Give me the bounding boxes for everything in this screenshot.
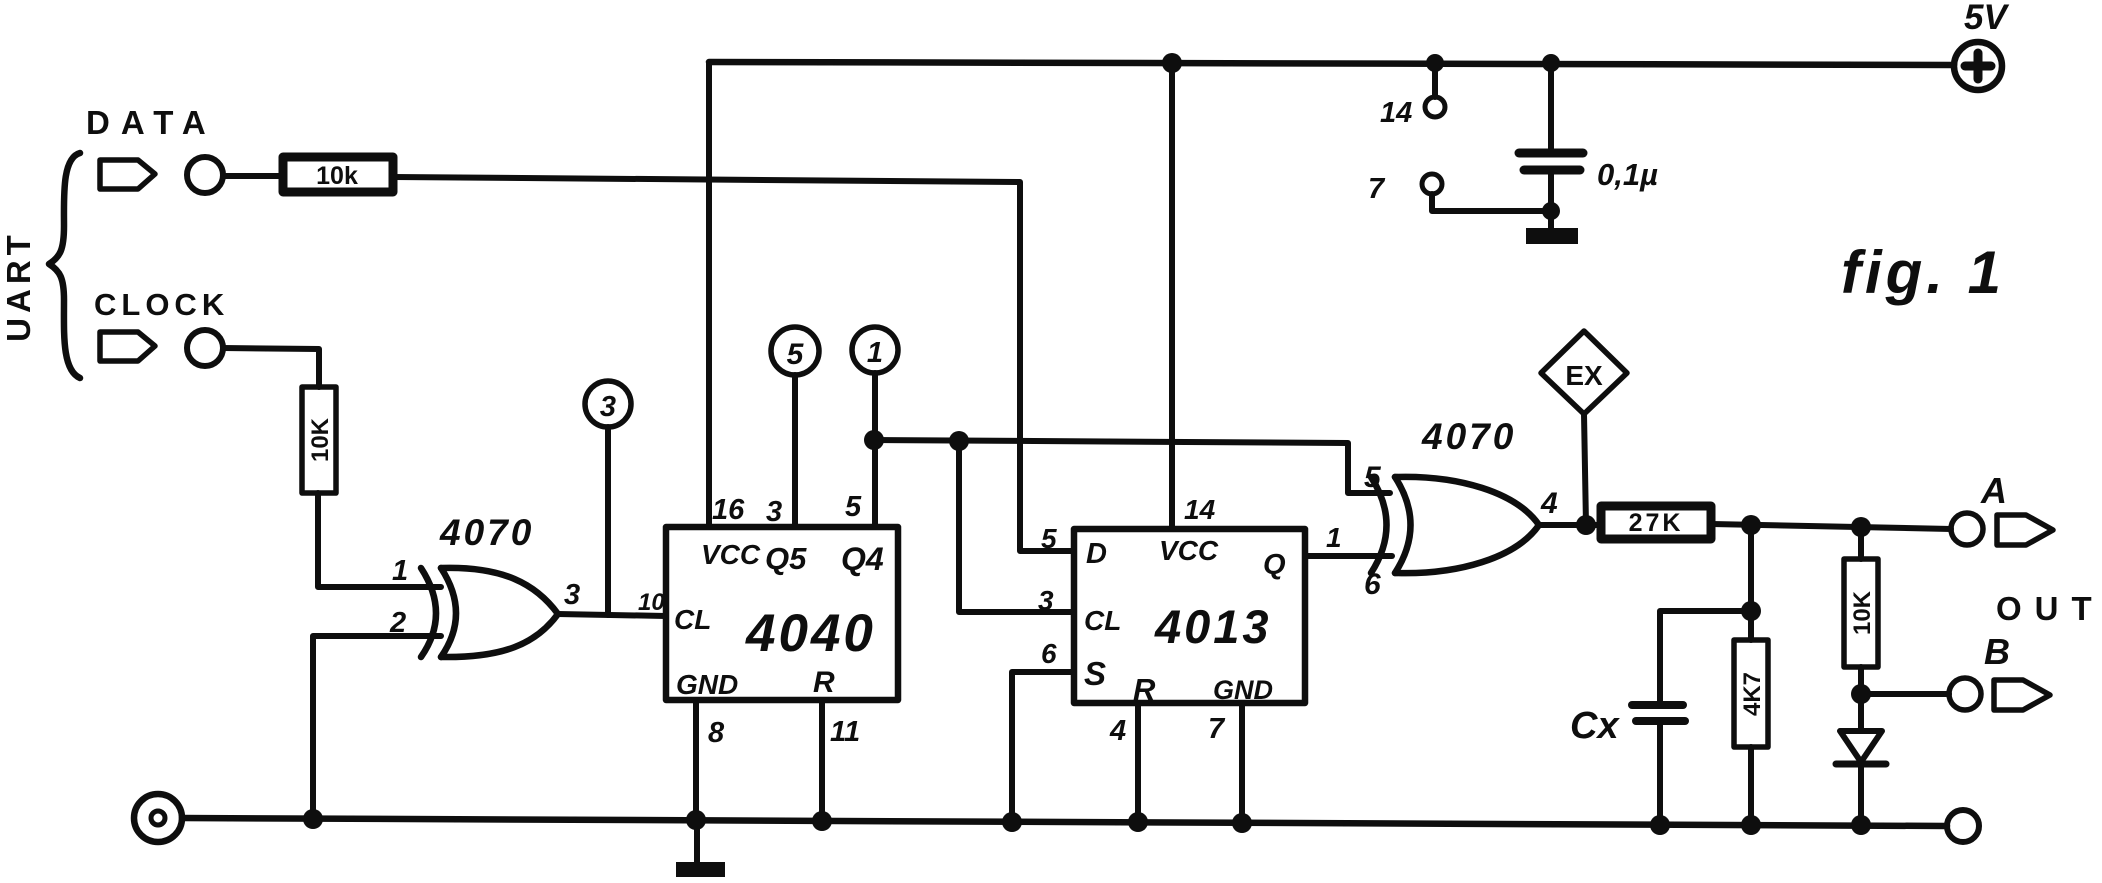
output B terminal circle	[1949, 678, 1981, 710]
junction rail / U3 R	[1128, 812, 1148, 832]
wire rail to ground symbol	[694, 820, 700, 862]
junction CL branch	[949, 431, 969, 451]
5V supply rail	[709, 62, 1954, 65]
wire R3 to output A	[1712, 524, 1951, 529]
wire C1 to ground	[1548, 172, 1554, 228]
wire S pin6 of U3 to rail	[1012, 672, 1074, 821]
svg-text:5V: 5V	[1964, 0, 2009, 37]
CLOCK terminal circle	[187, 330, 223, 366]
svg-text:11: 11	[830, 716, 860, 748]
wire R5 to B node	[1858, 667, 1864, 731]
svg-text:27K: 27K	[1629, 509, 1684, 537]
wire A node down to R5	[1858, 527, 1864, 559]
wire Q4 net down to CL of U3	[959, 441, 1074, 612]
svg-text:Cx: Cx	[1570, 705, 1620, 747]
junction 5V rail / U3 VCC	[1162, 53, 1182, 73]
svg-text:7: 7	[1368, 173, 1386, 205]
node 3 circle	[585, 381, 631, 427]
svg-text:EX: EX	[1565, 360, 1603, 391]
svg-text:16: 16	[712, 494, 745, 526]
svg-text:UART: UART	[0, 230, 37, 342]
wire down to Cx / 4K7 node	[1748, 525, 1754, 640]
UART brace	[49, 153, 80, 378]
svg-text:4: 4	[1540, 487, 1558, 520]
terminal 0 (bottom left)	[134, 794, 182, 842]
wire to capacitor Cx	[1660, 611, 1751, 704]
wire U3 VCC pin14 up to 5V rail	[1169, 62, 1175, 529]
junction rail / Cx	[1650, 815, 1670, 835]
5V terminal circle	[1954, 42, 2002, 90]
svg-text:Q: Q	[1263, 549, 1286, 581]
svg-text:4013: 4013	[1154, 600, 1272, 653]
svg-text:5: 5	[1041, 523, 1057, 554]
svg-text:A: A	[1980, 470, 2007, 511]
junction at Q4 column	[864, 430, 884, 450]
svg-text:3: 3	[766, 496, 782, 528]
XOR gate U1B 4070	[1371, 477, 1387, 573]
svg-text:Q5: Q5	[765, 541, 807, 576]
wire DATA terminal to R1	[223, 173, 282, 179]
svg-text:2: 2	[389, 607, 406, 639]
svg-text:1: 1	[392, 555, 408, 587]
svg-text:3: 3	[1038, 585, 1054, 616]
svg-text:VCC: VCC	[1159, 535, 1219, 566]
svg-text:Q4: Q4	[841, 541, 884, 577]
svg-text:0,1µ: 0,1µ	[1597, 157, 1658, 192]
svg-text:1: 1	[867, 337, 883, 369]
diode D1	[1840, 731, 1882, 762]
wire Q5 pin3 to node 5	[792, 375, 798, 527]
junction rail / U3 GND	[1232, 813, 1252, 833]
svg-text:4070: 4070	[1421, 416, 1516, 457]
output A arrow	[1997, 515, 2053, 545]
svg-text:fig. 1: fig. 1	[1841, 239, 2005, 306]
resistor R4 4K7 (vertical)	[1734, 640, 1768, 747]
wire ground rail to XOR1 input 2	[313, 636, 441, 819]
wire Q4 net to XOR2 input 5	[874, 440, 1390, 493]
IC U3 4013 body	[1074, 529, 1305, 703]
svg-text:4K7: 4K7	[1739, 672, 1766, 716]
wire D1 to rail	[1858, 764, 1864, 825]
svg-text:10: 10	[638, 589, 665, 616]
ground rail wire	[182, 818, 1947, 826]
svg-text:D: D	[1086, 538, 1107, 570]
svg-text:S: S	[1084, 655, 1106, 692]
svg-text:4070: 4070	[439, 512, 534, 553]
svg-text:14: 14	[1184, 494, 1216, 525]
svg-text:5: 5	[787, 338, 805, 371]
XOR gate U1A 4070	[421, 568, 436, 657]
IC U2 4040 body	[666, 527, 898, 700]
node 4 circle	[852, 327, 898, 373]
junction 5V rail / pin14	[1426, 54, 1444, 72]
junction C1 / pin7 wire	[1542, 202, 1560, 220]
junction B node	[1851, 684, 1871, 704]
wire R2 to XOR1 input 1	[318, 493, 441, 587]
svg-text:4: 4	[1109, 715, 1126, 747]
svg-text:10k: 10k	[316, 162, 358, 190]
svg-text:3: 3	[600, 391, 616, 423]
wire GND pin7 of U3 to rail	[1239, 703, 1245, 822]
svg-text:GND: GND	[676, 669, 738, 700]
wire Q pin1 of U3 to XOR2 input 6	[1305, 553, 1392, 559]
wire EX to XOR2 output node	[1584, 414, 1586, 525]
junction Cx node	[1741, 601, 1761, 621]
svg-text:DATA: DATA	[86, 104, 217, 141]
svg-text:6: 6	[1041, 638, 1057, 669]
junction A net / R5 branch	[1851, 517, 1871, 537]
DATA terminal circle	[187, 157, 223, 193]
svg-text:CL: CL	[674, 604, 711, 635]
ground symbol below C1	[1526, 228, 1578, 244]
svg-text:5: 5	[1364, 461, 1382, 494]
rail end circle (bottom right)	[1947, 810, 1979, 842]
svg-text:VCC: VCC	[701, 539, 761, 570]
resistor R3 27K	[1601, 506, 1711, 539]
wire Q4 pin5 to node 4	[872, 373, 878, 527]
wire VCC pin16 of U2 up to 5V rail	[706, 62, 712, 527]
junction rail / U2 GND	[686, 810, 706, 830]
wire XOR2 output to R3	[1539, 522, 1600, 528]
svg-text:10K: 10K	[1849, 590, 1876, 635]
wire CLOCK terminal to R2	[223, 348, 319, 387]
resistor R5 10K (vertical)	[1844, 559, 1878, 667]
pin 7 terminal of U1 (4070 gnd)	[1422, 174, 1442, 194]
svg-text:CL: CL	[1084, 605, 1121, 636]
junction rail / XOR1 input 2	[303, 809, 323, 829]
ground symbol below U2	[676, 862, 725, 877]
svg-text:5: 5	[845, 491, 862, 523]
wire R pin11 of U2 to rail	[819, 700, 825, 820]
wire R4 to rail	[1748, 747, 1754, 825]
junction A net / RC branch	[1741, 515, 1761, 535]
svg-text:8: 8	[708, 717, 725, 749]
svg-text:OUT: OUT	[1996, 590, 2102, 627]
wire 5V rail to C1	[1548, 62, 1554, 150]
resistor R1 10k	[283, 157, 393, 192]
junction EX node	[1576, 515, 1596, 535]
DATA input arrow	[100, 160, 155, 189]
junction rail / U2 R	[812, 811, 832, 831]
node EX diamond	[1541, 331, 1627, 414]
output A terminal circle	[1951, 513, 1983, 545]
svg-text:14: 14	[1380, 97, 1412, 129]
wire R pin4 of U3 to rail	[1135, 703, 1141, 821]
junction 5V rail / C1	[1542, 54, 1560, 72]
wire node 3 to CL wire	[605, 427, 611, 615]
svg-text:B: B	[1984, 631, 2010, 672]
node 5 circle	[771, 327, 819, 375]
CLOCK input arrow	[100, 332, 155, 361]
wire DATA net: R1 to D input of U3	[393, 177, 1074, 551]
wire GND pin8 of U2 to rail	[693, 700, 699, 820]
junction rail / U3 S	[1002, 812, 1022, 832]
junction rail / R4	[1741, 815, 1761, 835]
svg-text:7: 7	[1208, 713, 1226, 745]
svg-text:1: 1	[1326, 522, 1342, 553]
svg-text:3: 3	[564, 579, 580, 611]
wire XOR1 output to CL of U2	[558, 614, 666, 616]
output B arrow	[1994, 680, 2050, 710]
wire B node to terminal B	[1861, 691, 1949, 697]
wire pin7 to cap ground node	[1432, 194, 1551, 211]
svg-text:CLOCK: CLOCK	[94, 287, 229, 322]
junction rail / diode	[1851, 815, 1871, 835]
svg-text:10K: 10K	[307, 417, 334, 462]
resistor R2 10K (vertical)	[302, 387, 336, 493]
svg-text:4040: 4040	[745, 604, 876, 663]
svg-text:6: 6	[1364, 568, 1381, 601]
pin 14 terminal of U1 (4070 supply)	[1432, 63, 1438, 97]
capacitor Cx	[1632, 701, 1683, 709]
wire Cx to rail	[1657, 722, 1663, 825]
svg-text:R: R	[813, 666, 835, 699]
capacitor C1 0,1u	[1519, 149, 1583, 158]
